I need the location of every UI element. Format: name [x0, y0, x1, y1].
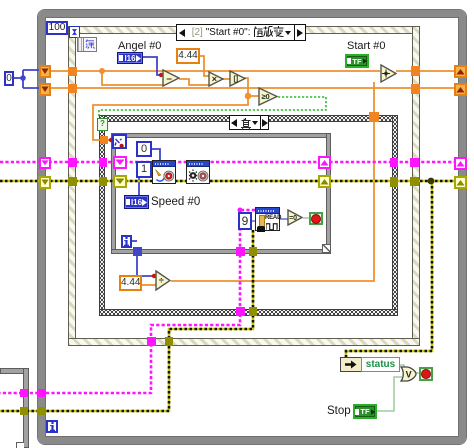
svg-text:÷: ÷: [159, 276, 164, 286]
svg-text:=0: =0: [289, 215, 297, 222]
svg-text:–: –: [166, 74, 172, 85]
svg-text:≥0: ≥0: [261, 92, 269, 101]
svg-text:[]: []: [233, 76, 238, 83]
svg-text:V: V: [406, 370, 412, 380]
svg-text:×: ×: [212, 74, 217, 84]
